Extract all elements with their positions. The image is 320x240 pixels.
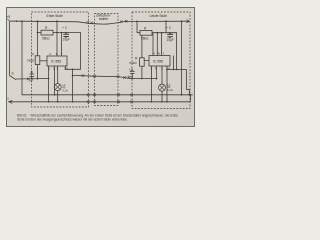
wire R4 bottom [141, 66, 143, 78]
op-amp U1 : IC 555 left [47, 56, 67, 66]
wire +9V top rail [10, 21, 190, 24]
wire R2 bottom [37, 65, 39, 79]
wire R3 feed right [165, 21, 167, 33]
wire left 0V rail [9, 101, 191, 103]
wire RC row right [137, 33, 177, 70]
svg-text:56kΩ: 56kΩ [27, 58, 35, 62]
wire right output down [166, 70, 168, 102]
capacitor C4 right small [130, 69, 135, 79]
x break marks [27, 20, 133, 103]
lamp La2 [159, 84, 166, 91]
wire IC right top pins [153, 33, 162, 56]
labels [6, 14, 174, 101]
svg-text:10µF: 10µF [63, 38, 70, 42]
wire feedback tap [177, 69, 187, 71]
svg-text:1nF: 1nF [128, 74, 133, 78]
wire right rail end [189, 95, 191, 102]
wire left feed vertical [9, 21, 11, 75]
svg-text:2 6: 2 6 [64, 67, 68, 71]
wire pin stub right IC [173, 56, 175, 70]
dashed box Letzte Stufe [132, 12, 190, 109]
dashed box Erste Stufe [32, 12, 89, 107]
caption [17, 113, 178, 121]
svg-text:56kΩ: 56kΩ [42, 37, 50, 41]
wire RC row right start [136, 21, 138, 33]
capacitor C2 left [29, 71, 34, 79]
wire RC row left [38, 33, 81, 70]
junction dots [16, 20, 192, 102]
svg-text:Letzte Stufe: Letzte Stufe [150, 14, 168, 18]
wire IC right pin1 down [151, 66, 153, 102]
switch S1 [10, 76, 17, 80]
wire lamp right to 0V [161, 91, 163, 102]
lamp La1 [54, 84, 61, 91]
svg-text:+ C: + C [62, 26, 68, 30]
wire R2 top link [40, 60, 47, 62]
svg-text:+ C: + C [166, 26, 172, 30]
page background [0, 0, 200, 132]
wire lamp to 0V [57, 91, 59, 102]
svg-text:Erste Stufe: Erste Stufe [47, 14, 63, 18]
wire rail arrow right [186, 20, 189, 23]
wire trigger out left stage [73, 69, 132, 102]
wire mid return rail [22, 21, 193, 95]
capacitor C1 left electrolytic [63, 33, 69, 39]
wire R4 top link [142, 35, 149, 60]
wire lamp feed [57, 66, 59, 84]
op-amp U2 : IC 555 right [149, 56, 170, 67]
svg-text:0,1A: 0,1A [62, 88, 68, 92]
resistor R3 [140, 30, 152, 35]
wire IC pin top b [61, 33, 63, 57]
svg-text:IC 555: IC 555 [153, 59, 163, 63]
wire trigger right join [132, 66, 157, 79]
capacitor C3 right electrolytic [167, 33, 173, 39]
terminal 0V arrow [9, 100, 13, 103]
resistor R2 vertical left [35, 56, 40, 65]
wire rail to RC [56, 21, 58, 56]
svg-text:IC 555: IC 555 [51, 60, 61, 64]
figure frame [7, 8, 195, 127]
svg-text:56kΩ: 56kΩ [129, 61, 137, 65]
wire lamp feed right [161, 66, 163, 84]
resistor R1 [41, 30, 53, 35]
svg-text:Stufe ist über den Ausgangsans: Stufe ist über den Ausgangsanschluss wie… [17, 118, 128, 122]
svg-text:1nF: 1nF [28, 78, 33, 82]
wire IC pin down b [54, 66, 56, 95]
svg-text:56kΩ: 56kΩ [141, 37, 149, 41]
wire IC pin1 down [48, 66, 50, 102]
wire feedback corner right [187, 70, 190, 95]
svg-text:10µF: 10µF [167, 38, 174, 42]
svg-text:0,1A: 0,1A [167, 88, 173, 92]
wire R1 feed [37, 21, 39, 56]
svg-text:stufen: stufen [99, 17, 108, 21]
dashed box Zwischenstufen [95, 14, 119, 106]
resistor R4 vertical right [140, 58, 145, 66]
svg-text:2 6: 2 6 [166, 66, 170, 70]
wire switch to trigger [16, 78, 49, 81]
wire right vertical a [181, 21, 183, 95]
